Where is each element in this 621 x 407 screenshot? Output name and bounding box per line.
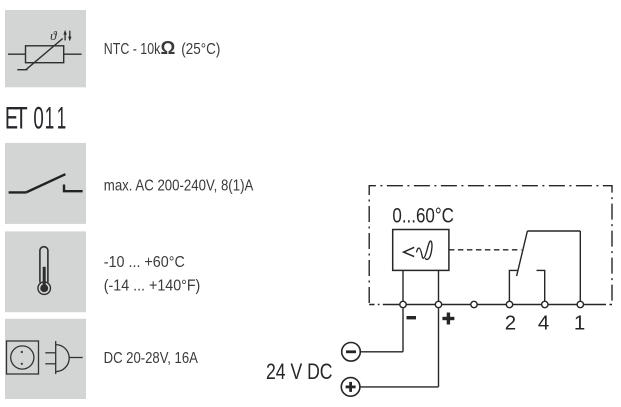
- svg-text:0: 0: [33, 99, 43, 135]
- svg-text:1: 1: [45, 99, 55, 135]
- down arrow: [68, 31, 71, 42]
- svg-text:ϑ: ϑ: [50, 28, 57, 43]
- plug body flat side: [55, 341, 57, 374]
- socket square: [7, 341, 39, 374]
- node terminal 2: [506, 301, 512, 307]
- thermometer mercury bar: [43, 267, 46, 288]
- svg-text:Ω: Ω: [161, 37, 176, 58]
- svg-text:1: 1: [57, 99, 66, 135]
- svg-text:-10 ... +60°C: -10 ... +60°C: [104, 254, 185, 271]
- pin 2 contact: [509, 270, 517, 301]
- socket circle: [11, 346, 34, 369]
- wire bottom terminal rail: [383, 304, 606, 306]
- thermometer bulb ring: [38, 282, 51, 295]
- svg-text:max. AC 200-240V, 8(1)A: max. AC 200-240V, 8(1)A: [104, 178, 254, 195]
- svg-text:(25°C): (25°C): [181, 41, 220, 58]
- icon panel 1 background (NTC sensor symbol box): [5, 10, 86, 87]
- plug prong upper: [45, 352, 55, 354]
- dashed control link: [449, 249, 522, 251]
- svg-text:NTC - 10k: NTC - 10k: [104, 41, 161, 58]
- thermometer bulb center: [40, 284, 48, 292]
- label NTC - 10kOhm (25C): [104, 37, 221, 58]
- plug body arc: [56, 345, 70, 372]
- icon panel 4 background (socket/plug symbol box): [5, 319, 86, 399]
- wire supply plus: [360, 308, 439, 387]
- thermistor diagonal stroke: [26, 39, 63, 70]
- relay blade: [517, 231, 528, 276]
- plug prong lower: [45, 363, 55, 365]
- wire pin 1 vertical: [579, 231, 581, 301]
- resistor body rectangle: [26, 46, 64, 63]
- svg-text:0...60°C: 0...60°C: [392, 203, 454, 227]
- fixed contact: [64, 185, 83, 192]
- switch blade: [26, 174, 65, 192]
- title ET 011: [5, 99, 66, 135]
- wire supply minus: [360, 308, 403, 352]
- wire thermostat to terminal plus: [438, 270, 440, 301]
- label plus terminal: [442, 313, 454, 325]
- icon panel 3 background (thermometer symbol box): [5, 231, 86, 312]
- supply minus symbol: [342, 343, 361, 362]
- thermometer symbol in panel 3: [38, 247, 51, 295]
- thermostat theta symbol (script): [417, 241, 432, 260]
- wire right lead: [64, 53, 82, 55]
- label minus terminal: [407, 316, 417, 319]
- svg-text:(-14 ... +140°F): (-14 ... +140°F): [104, 278, 201, 295]
- wire left: [9, 191, 27, 193]
- thermostat box U1: [393, 230, 449, 271]
- wire left lead: [8, 53, 26, 55]
- svg-text:T: T: [15, 99, 28, 135]
- socket pin hole upper: [21, 351, 23, 353]
- up arrow: [63, 30, 66, 41]
- svg-text:2: 2: [505, 312, 516, 335]
- enclosure dash-dot border (left, top, right sides): [369, 186, 612, 303]
- node terminal 4: [542, 301, 548, 307]
- relay contact symbol in panel 2: [9, 174, 83, 192]
- socket pin hole lower: [21, 363, 23, 365]
- thermostat less-than symbol: [404, 247, 415, 256]
- node terminal unused: [471, 301, 477, 307]
- node terminal minus: [400, 301, 406, 307]
- node terminal plus: [435, 301, 441, 307]
- plug output lead: [69, 357, 83, 359]
- svg-text:24 V DC: 24 V DC: [266, 359, 333, 384]
- wire relay top bar: [527, 230, 580, 232]
- icon panel 2 background (relay contact symbol box): [5, 143, 86, 224]
- enclosure bottom border segments: [369, 304, 612, 306]
- supply plus symbol: [341, 378, 360, 397]
- thermistor symbol (NTC) in panel 1: [8, 39, 82, 70]
- pin 4 contact: [537, 270, 545, 301]
- svg-text:DC 20-28V, 16A: DC 20-28V, 16A: [104, 350, 199, 367]
- thermometer stem outline: [40, 247, 48, 283]
- wire thermostat to terminal minus: [402, 270, 404, 301]
- socket and plug symbol in panel 4: [7, 341, 83, 374]
- thermistor diagonal foot: [17, 69, 27, 71]
- svg-text:4: 4: [538, 312, 549, 335]
- node terminal 1: [577, 301, 583, 307]
- svg-text:1: 1: [574, 312, 585, 335]
